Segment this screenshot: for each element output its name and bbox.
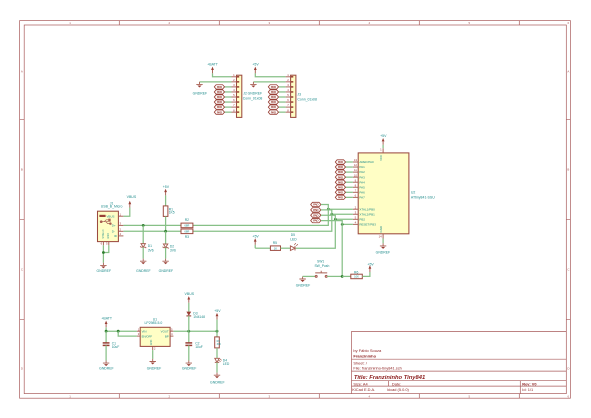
svg-text:14: 14 (379, 235, 383, 239)
wire to U2 PB2 (335, 218, 353, 220)
wire PAD to U2 PA3 (346, 176, 353, 178)
resistor R2 body (181, 223, 193, 228)
svg-text:12: 12 (354, 163, 358, 167)
svg-text:GNDREF: GNDREF (147, 367, 162, 371)
svg-text:RESET/PB3: RESET/PB3 (359, 222, 376, 226)
wire J1 D- to R3 (123, 230, 181, 232)
wire PAD to J3 pin8 (279, 111, 286, 113)
svg-text:PA7: PA7 (359, 195, 365, 199)
ground GNDREF (C1) (103, 361, 109, 367)
svg-text:D5: D5 (291, 233, 295, 237)
junction +BATT/C1 (105, 330, 108, 333)
junction RESET/PB3 (341, 223, 344, 226)
global label PAD (J3 pin7) (268, 105, 278, 109)
svg-text:GNDREF: GNDREF (248, 92, 263, 96)
wire PAD to J3 pin3 (279, 86, 286, 88)
wire PAD to J2 pin5 (225, 96, 232, 98)
svg-text:1K: 1K (274, 246, 277, 250)
U2 pin 12 PA1 (353, 166, 358, 168)
svg-text:R6: R6 (354, 270, 358, 274)
junction XTAL2/PB1 (330, 213, 333, 216)
power symbol VBUS (D3) (187, 296, 190, 303)
wire to R5 (255, 247, 270, 249)
U2 pin 9 PA4 (353, 181, 358, 183)
svg-text:68R: 68R (184, 224, 189, 228)
svg-text:A: A (21, 70, 23, 74)
wire PAD to J3 pin5 (279, 96, 286, 98)
svg-text:Rev: V0: Rev: V0 (522, 381, 536, 386)
global label PAD (J3 pin5) (268, 95, 278, 99)
svg-text:+5V: +5V (252, 63, 259, 67)
global label PAD (column 4) (311, 218, 321, 222)
wire PAD to J2 pin8 (225, 111, 232, 113)
svg-text:C: C (21, 267, 23, 271)
svg-text:PA3: PA3 (359, 175, 365, 179)
svg-text:BP: BP (165, 334, 169, 338)
global label PAD (J2 pin7) (214, 105, 224, 109)
U2 pin 13 AREF/PA0 (353, 161, 358, 163)
wire J3 pin1 to +5V (255, 73, 285, 77)
svg-text:VCC: VCC (379, 155, 383, 161)
svg-text:EN/OFF: EN/OFF (142, 334, 153, 338)
wire PAD to J2 pin6 (225, 101, 232, 103)
power symbol +5V (R1) (164, 189, 167, 196)
ground GNDREF (J2 pin2) (196, 82, 202, 88)
svg-text:B: B (567, 167, 569, 171)
svg-text:1N4148: 1N4148 (193, 315, 205, 319)
svg-text:J3: J3 (297, 92, 301, 96)
svg-text:+BATT: +BATT (207, 63, 219, 67)
wire junction to R6 (342, 275, 351, 277)
wire to U2 XTAL1/PB0 (328, 208, 353, 210)
svg-text:GNDREF: GNDREF (210, 380, 225, 384)
ground GNDREF (U1) (150, 359, 156, 365)
J1 pins right (118, 215, 123, 217)
svg-text:VOUT: VOUT (161, 330, 169, 334)
wire PAD column 3 stair (321, 215, 335, 219)
svg-text:ID: ID (114, 234, 117, 238)
wire R6 to +5V (362, 272, 370, 276)
svg-text:GNDREF: GNDREF (99, 367, 114, 371)
global label PAD (U2 PA5) (335, 185, 345, 189)
wire PAD to J2 pin7 (225, 106, 232, 108)
wire rail to R4 (216, 331, 218, 337)
svg-text:D+: D+ (112, 224, 116, 228)
svg-text:GNDREF: GNDREF (159, 269, 174, 273)
svg-text:by Fábio Souza: by Fábio Souza (353, 348, 382, 353)
svg-text:D1: D1 (148, 244, 152, 248)
wire PAD to J3 pin7 (279, 106, 286, 108)
power symbol VBUS (J1) (128, 201, 131, 208)
svg-text:VBUS: VBUS (185, 292, 195, 296)
U2 pin 6 PA7 (353, 196, 358, 198)
svg-text:+BATT: +BATT (101, 316, 113, 320)
svg-text:VBUS: VBUS (107, 214, 115, 218)
wire SW1 to junction (327, 275, 342, 277)
wire R5 to D5 (281, 247, 291, 249)
U2 pin 5 PB2 (353, 218, 358, 220)
U2 VCC pin 1 (382, 148, 384, 153)
wire PB2 net to LED D5 (296, 219, 336, 248)
U2 pin 8 PA5 (353, 186, 358, 188)
svg-text:Date:: Date: (392, 381, 401, 386)
svg-text:10: 10 (354, 173, 358, 177)
U2 pin 4 RESET/PB3 (353, 223, 358, 225)
svg-text:3V6: 3V6 (148, 248, 154, 252)
svg-text:D-: D- (112, 229, 115, 233)
wire to U2 XTAL2/PB1 (332, 213, 353, 215)
wire +5V down (254, 245, 256, 248)
junction VOUT/C2/D3 (187, 330, 190, 333)
svg-text:Conn_01x08: Conn_01x08 (243, 97, 263, 101)
global label PAD (J3 pin4) (268, 90, 278, 94)
wire C2 to gnd (188, 345, 190, 360)
power symbol +5V (R6) (369, 265, 372, 272)
svg-text:68R: 68R (184, 229, 189, 233)
wire D+ to D1 (142, 225, 144, 243)
global label PAD (U2 PA4) (335, 180, 345, 184)
svg-text:GNDREF: GNDREF (97, 269, 112, 273)
resistor R3 body (181, 229, 193, 234)
svg-text:D2: D2 (170, 244, 174, 248)
wire U2 GND to GNDREF (382, 239, 384, 244)
svg-text:Title: Franzininho Tiny841: Title: Franzininho Tiny841 (354, 375, 425, 381)
junction J1 gnd (102, 251, 105, 254)
zener D2 3V6 (163, 244, 169, 249)
global label PAD (U2 PA3) (335, 175, 345, 179)
svg-text:10K: 10K (354, 275, 359, 279)
svg-text:PB2: PB2 (359, 217, 365, 221)
ground GNDREF (SW1) (299, 276, 305, 282)
svg-text:VIN: VIN (142, 330, 147, 334)
wire J1 shield+gnd to GNDREF (102, 245, 104, 262)
wire D2 to gnd (165, 248, 167, 259)
svg-text:10uF: 10uF (112, 345, 120, 349)
USB icon (99, 215, 105, 217)
global label PAD (J3 pin8) (268, 110, 278, 114)
svg-text:XTAL1/PB0: XTAL1/PB0 (359, 207, 375, 211)
svg-text:R3: R3 (185, 235, 189, 239)
U2 pin 10 PA3 (353, 176, 358, 178)
wire J2 pin2 to GNDREF (200, 81, 232, 83)
global label PAD (U2 PA6) (335, 190, 345, 194)
ground GNDREF (U2) (380, 243, 386, 249)
wire to U2 RESET/PB3 (342, 223, 353, 225)
svg-text:Conn_01x08: Conn_01x08 (297, 97, 317, 101)
svg-text:+5V: +5V (367, 262, 374, 266)
ground GNDREF (J3 pin2) (250, 82, 256, 88)
junction D- / R1 / D2 (164, 230, 167, 233)
U2 GND pin 14 (382, 234, 384, 239)
wire gnd to SW1 (303, 275, 316, 277)
switch SW1 (315, 271, 327, 278)
junction D+ / D1 (142, 224, 145, 227)
global label PAD (U2 PA2) (335, 170, 345, 174)
global label PAD (J2 pin5) (214, 95, 224, 99)
svg-text:+5V: +5V (380, 134, 387, 138)
power symbol +BATT (U1) (105, 321, 108, 328)
svg-text:R5: R5 (273, 241, 277, 245)
svg-text:GNDREF: GNDREF (296, 284, 311, 288)
global label PAD (column 3) (311, 213, 321, 217)
svg-text:USB_B_Micro: USB_B_Micro (101, 205, 123, 209)
global label PAD (column 2) (311, 208, 321, 212)
wire to D2 (165, 231, 167, 244)
wire VOUT rail to +5V (173, 330, 217, 332)
svg-text:U2: U2 (411, 191, 416, 195)
wire J3 pin2 to GNDREF (253, 81, 285, 83)
wire U1 GND to gnd (152, 350, 154, 359)
svg-text:Franzininho: Franzininho (353, 353, 376, 358)
svg-text:A: A (567, 70, 569, 74)
svg-text:GND: GND (150, 340, 153, 346)
svg-text:Id: 1/1: Id: 1/1 (522, 387, 533, 392)
resistor R4 body (215, 337, 220, 348)
global label PAD (column 1) (311, 202, 321, 206)
power symbol +5V (U1 out) (216, 313, 219, 320)
ground GNDREF (D2) (162, 259, 168, 265)
J1 bottom pins 5,6 (102, 242, 104, 246)
global label PAD (J2 pin8) (214, 110, 224, 114)
svg-text:PA2: PA2 (359, 170, 365, 174)
wire PB0 net to R2 (USB D+) (193, 209, 328, 225)
svg-text:D: D (567, 367, 569, 371)
svg-text:+5V: +5V (252, 235, 259, 239)
wire PAD to U2 PA6 (346, 191, 353, 193)
power symbol +5V (top) (254, 67, 257, 74)
wire PAD to J2 pin4 (225, 91, 232, 93)
power symbol +5V (U2 VCC) (382, 138, 385, 145)
U2 pin 7 PA6 (353, 191, 358, 193)
LED D4 (215, 358, 222, 362)
power symbol +5V (R5) (254, 238, 257, 245)
wire +BATT rail to U1 VIN (106, 330, 137, 332)
junction EN (117, 330, 120, 333)
svg-text:GND: GND (107, 233, 110, 239)
wire PAD column 4 stair (321, 221, 342, 225)
wire PAD to U2 PA7 (346, 196, 353, 198)
svg-text:PA4: PA4 (359, 180, 365, 184)
ground GNDREF (J1) (100, 263, 106, 269)
wire J1 D+ to R2 (123, 224, 181, 226)
regulator U1 body (140, 327, 170, 346)
svg-text:LED: LED (223, 362, 230, 366)
LED D5 (290, 243, 298, 251)
svg-text:1K5: 1K5 (169, 211, 175, 215)
wire D3 to rail (188, 316, 190, 331)
global label PAD (J2 pin3) (214, 85, 224, 89)
wire R1 to D- line (165, 216, 167, 231)
svg-text:+5V: +5V (163, 185, 170, 189)
wire PAD to J3 pin4 (279, 91, 286, 93)
wire PAD column 2 stair (321, 210, 332, 214)
zener D1 3V6 (140, 244, 146, 248)
USB connector J1 body (98, 211, 119, 241)
junction PB2 (334, 218, 337, 221)
ground GNDREF (D1) (140, 259, 146, 265)
svg-text:13: 13 (354, 158, 358, 162)
wire PAD to U2 PA2 (346, 171, 353, 173)
junction XTAL1/PB0 (327, 208, 330, 211)
wire +5V to R1 (165, 195, 167, 206)
svg-text:AREF/PA0: AREF/PA0 (359, 160, 374, 164)
svg-text:PA1: PA1 (359, 165, 365, 169)
svg-text:KiCad E.D.A.: KiCad E.D.A. (352, 387, 375, 392)
global label PAD (J3 pin6) (268, 100, 278, 104)
global label PAD (J3 pin3) (268, 85, 278, 89)
svg-text:D: D (21, 367, 23, 371)
global label PAD (U2 AREF/PA0) (335, 160, 345, 164)
wire D1 to gnd (142, 247, 144, 258)
svg-text:VBUS: VBUS (127, 195, 137, 199)
svg-text:LED: LED (290, 238, 297, 242)
svg-text:GND: GND (379, 226, 383, 232)
wire PAD column 1 stair (321, 205, 328, 210)
junction RESET net (341, 275, 344, 278)
U2 pin 11 PA2 (353, 171, 358, 173)
global label PAD (J2 pin6) (214, 100, 224, 104)
wire +5V to rail (216, 320, 218, 332)
svg-text:PA6: PA6 (359, 190, 365, 194)
wire PAD to U2 PA1 (346, 166, 353, 168)
connector J2 pins (232, 76, 237, 78)
resistor R1 body (163, 206, 168, 217)
svg-text:GNDREF: GNDREF (376, 251, 391, 255)
svg-text:10uF: 10uF (195, 345, 203, 349)
svg-text:R2: R2 (185, 218, 189, 222)
svg-text:XTAL2/PB1: XTAL2/PB1 (359, 212, 375, 216)
wire +BATT down (105, 327, 107, 331)
wire EN/OFF (118, 331, 137, 336)
svg-text:11: 11 (354, 168, 357, 172)
capacitor C1 (105, 331, 107, 343)
svg-text:C: C (567, 267, 569, 271)
svg-text:PA5: PA5 (359, 185, 365, 189)
svg-text:Size: A4: Size: A4 (353, 381, 368, 386)
U2 pin 3 XTAL2/PB1 (353, 213, 358, 215)
MCU U2 ATtiny841 body (358, 153, 409, 234)
connector J2 body (237, 75, 242, 117)
wire VBUS to D3 (188, 303, 190, 312)
diode D3 1N4148 (186, 312, 191, 316)
svg-text:SHIELD: SHIELD (102, 229, 105, 238)
wire J2 pin1 to +BATT (213, 73, 232, 77)
title block (352, 332, 567, 394)
global label PAD (J2 pin4) (214, 90, 224, 94)
resistor R5 body (270, 246, 280, 251)
svg-text:+5V: +5V (214, 309, 221, 313)
wire D4 to gnd (216, 362, 218, 372)
connector J3 pins (286, 76, 291, 78)
wire RESET net vertical (341, 224, 343, 276)
svg-text:GNDREF: GNDREF (193, 92, 208, 96)
svg-text:SW_Push: SW_Push (314, 264, 329, 268)
wire C1 to gnd (105, 345, 107, 360)
wire R4 to D4 (216, 348, 218, 358)
capacitor C2 (188, 331, 190, 343)
junction +5V/R4 (216, 330, 219, 333)
ground GNDREF (C2) (186, 361, 192, 367)
wire PAD to U2 PA4 (346, 181, 353, 183)
resistor R6 body (351, 274, 363, 279)
svg-text:330: 330 (217, 343, 222, 346)
svg-text:ATtiny841-SSU: ATtiny841-SSU (411, 195, 435, 199)
wire PAD to U2 PA5 (346, 186, 353, 188)
wire J1 VBUS to VBUS power (123, 208, 129, 217)
global label PAD (U2 PA1) (335, 165, 345, 169)
wire PB1 net to R3 (USB D-) (193, 214, 332, 231)
svg-text:kicad (5.0.0): kicad (5.0.0) (387, 387, 409, 392)
U2 pin 2 XTAL1/PB0 (353, 208, 358, 210)
global label PAD (U2 PA7) (335, 195, 345, 199)
connector J3 body (291, 75, 296, 117)
wire PAD to U2 AREF/PA0 (346, 161, 353, 163)
svg-text:GNDREF: GNDREF (182, 367, 197, 371)
svg-text:File: franzininho-tiny841.sch: File: franzininho-tiny841.sch (353, 365, 401, 370)
power symbol +BATT (top) (211, 67, 214, 74)
wire PAD to J2 pin3 (225, 86, 232, 88)
ground GNDREF (D4) (214, 373, 220, 379)
svg-text:3V6: 3V6 (170, 249, 176, 253)
wire PAD to J3 pin6 (279, 101, 286, 103)
svg-text:J2: J2 (243, 92, 247, 96)
svg-text:LP2985-5.0: LP2985-5.0 (145, 321, 163, 325)
wire U2 VCC to +5V (382, 145, 384, 149)
U1 pins (137, 331, 174, 350)
svg-text:B: B (21, 167, 23, 171)
svg-text:GNDREF: GNDREF (136, 269, 151, 273)
